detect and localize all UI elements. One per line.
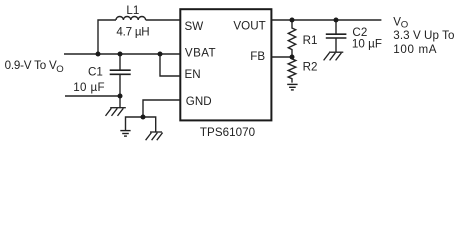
wire: VOUT output line	[271, 19, 381, 21]
ground: earth ground under GND (left)	[120, 131, 130, 137]
ground: earth ground under R2	[287, 84, 297, 90]
wire: EN tap from VBAT rail	[160, 54, 180, 76]
wire: branch up to L1	[98, 20, 116, 54]
node: VBAT/C1 junction	[118, 52, 123, 57]
svg-text:C1: C1	[88, 65, 103, 78]
ground: signal ground under GND (right)	[146, 132, 163, 140]
node: ground rail junction	[141, 115, 146, 120]
node: C1 bottom / input return junction	[118, 94, 123, 99]
node: VOUT/R1 junction	[290, 18, 295, 23]
svg-text:4.7 µH: 4.7 µH	[116, 25, 149, 38]
node: FB divider junction	[290, 55, 295, 60]
svg-text:0.9-V To V: 0.9-V To V	[5, 59, 57, 72]
IC U1 TPS61070 body	[180, 9, 271, 120]
node: VBAT/L1 junction	[96, 52, 101, 57]
capacitor C2	[326, 20, 347, 52]
svg-text:TPS61070: TPS61070	[200, 126, 255, 139]
wire: L1 to SW pin	[146, 19, 180, 21]
node: VOUT/C2 junction	[334, 18, 339, 23]
inductor L1	[116, 17, 146, 21]
wire: ground rail split	[126, 117, 156, 132]
svg-text:FB: FB	[250, 50, 265, 63]
svg-text:3.3 V Up To: 3.3 V Up To	[393, 29, 454, 42]
svg-text:GND: GND	[186, 95, 212, 108]
wire: FB pin to divider	[271, 56, 292, 58]
node: VBAT/EN junction	[158, 52, 163, 57]
wire: GND pin to ground rail	[143, 100, 180, 117]
svg-text:SW: SW	[185, 20, 204, 33]
svg-text:100 mA: 100 mA	[393, 43, 437, 56]
capacitor C1	[110, 54, 131, 108]
svg-text:R1: R1	[303, 34, 318, 47]
wire: input return (bottom left)	[65, 95, 120, 97]
svg-text:L1: L1	[126, 4, 139, 17]
svg-text:O: O	[56, 64, 63, 75]
svg-text:R2: R2	[303, 61, 318, 74]
resistor R1	[288, 20, 295, 57]
ground: C1 signal ground	[106, 108, 126, 116]
svg-text:VBAT: VBAT	[185, 46, 216, 59]
resistor R2	[288, 57, 296, 83]
svg-text:EN: EN	[185, 68, 201, 81]
ground: C2 signal ground	[324, 52, 344, 60]
svg-text:10 µF: 10 µF	[352, 38, 382, 51]
wire: input positive to VBAT pin	[64, 53, 180, 55]
svg-text:VOUT: VOUT	[233, 20, 265, 33]
svg-text:10 µF: 10 µF	[73, 81, 105, 94]
